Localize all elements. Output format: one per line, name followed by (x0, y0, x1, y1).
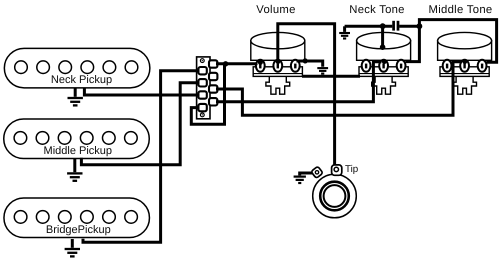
neck pickup body (4, 48, 150, 88)
switch lug R4 (209, 98, 217, 105)
junction dot capacitor right (417, 23, 423, 29)
wire: junction down to neck tone right lug (406, 26, 420, 61)
ground left of output jack (294, 177, 306, 183)
bridge pickup body (4, 198, 150, 238)
svg-text:BridgePickup: BridgePickup (46, 224, 111, 236)
solder blob neck tone middle lug (382, 59, 387, 64)
junction dot volume casing (303, 58, 308, 63)
capacitor C1 (394, 21, 398, 31)
ground below neck pickup (68, 98, 83, 105)
junction dot at switch R1 wire (223, 61, 228, 66)
junction dot ground-capacitor wire (380, 23, 386, 29)
wire: switch R1 to volume left lug (216, 62, 258, 65)
solder blob volume middle lug (276, 59, 281, 64)
wire: switch R3 to middle tone middle lug (216, 62, 462, 116)
wire: capacitor C1 right to junction (399, 25, 419, 28)
switch lug R3 (209, 85, 217, 92)
wire: middle pickup hot to switch lug L2 (81, 83, 199, 165)
wire: volume middle lug up over to output jack tip (278, 24, 335, 166)
wire: output jack sleeve to ground (300, 173, 314, 175)
wire: bridge pickup hot to switch lug L1 (83, 71, 200, 243)
ground below volume pot (317, 68, 328, 74)
output jack J1 (311, 165, 356, 218)
wire: loop switch R1 junction down-left-up to switch lug L4 (191, 64, 224, 125)
wire: ground to capacitor C1 left (345, 25, 393, 28)
wire: neck pickup hot to switch lug L3 (84, 88, 199, 95)
wire: middle pickup ground stem (73, 158, 76, 172)
ground below middle pickup (67, 173, 82, 180)
svg-text:Neck Pickup: Neck Pickup (51, 74, 112, 86)
wire: junction up over to middle tone right lug (419, 20, 496, 63)
volume pot R1 body (251, 32, 305, 94)
wire: volume right lug to casing to ground (297, 61, 323, 67)
solder blob middle tone middle lug (462, 59, 467, 64)
svg-text:Middle Tone: Middle Tone (428, 4, 492, 16)
wire: bridge pickup ground stem (71, 239, 74, 248)
wire: neck tone casing drop (381, 26, 384, 47)
svg-text:Middle Pickup: Middle Pickup (44, 145, 112, 157)
svg-text:Neck Tone: Neck Tone (349, 4, 404, 16)
svg-text:Volume: Volume (256, 4, 295, 16)
ground below bridge pickup (65, 249, 80, 256)
solder blob volume left lug (258, 60, 263, 65)
svg-text:Tip: Tip (345, 164, 359, 175)
switch lug L1 (198, 67, 206, 74)
switch lug L4 (198, 104, 206, 111)
middle pickup body (4, 119, 150, 159)
switch lug R1 (209, 60, 217, 67)
switch lug L3 (198, 91, 206, 98)
switch lug L2 (198, 79, 206, 86)
neck tone pot R2 body (357, 32, 411, 94)
wire: volume casing to neck tone casing (302, 75, 360, 78)
5-way switch SW1 body (197, 57, 210, 119)
switch lug R2 (209, 73, 217, 80)
ground left of neck tone (343, 26, 346, 32)
wire: neck pickup ground stem (74, 88, 77, 97)
middle tone pot R3 body (438, 32, 492, 94)
junction dot neck tone casing (380, 44, 386, 50)
wire: switch R4 to neck tone middle lug (216, 62, 382, 102)
